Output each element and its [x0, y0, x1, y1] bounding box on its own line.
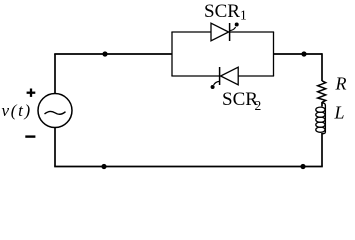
- svg-text:SCR: SCR: [204, 1, 240, 22]
- SCR SCR2 (thyristor, pointing left): [211, 67, 239, 89]
- SCR SCR1 (thyristor, pointing right): [211, 23, 239, 42]
- wire: bottom branch right segment from SCR2 anode: [238, 75, 274, 77]
- svg-text:L: L: [334, 103, 345, 123]
- - polarity mark: [25, 135, 35, 137]
- svg-text:1: 1: [240, 8, 247, 23]
- node: bottom-left junction: [101, 164, 106, 169]
- node: top-left junction: [102, 51, 107, 56]
- wire: right vertical between resistor and inductor: [321, 102, 323, 107]
- resistor R: [318, 81, 326, 103]
- voltage source v(t): [38, 94, 72, 128]
- inductor L: [316, 103, 326, 134]
- node: bottom-right junction: [300, 164, 305, 169]
- svg-text:2: 2: [255, 98, 262, 113]
- wire: left vertical (source top lead): [54, 54, 56, 94]
- wire: bottom rail: [54, 166, 323, 168]
- wire: right vertical below inductor: [321, 133, 323, 167]
- node: top-right junction: [301, 51, 306, 56]
- wire: SCR parallel box right edge: [273, 32, 275, 76]
- svg-text:SCR: SCR: [222, 89, 258, 110]
- wire: bottom branch left segment to SCR2 cathode: [171, 75, 220, 77]
- wire: top rail from source to SCR box: [54, 53, 172, 55]
- wire: left vertical (source bottom lead): [54, 128, 56, 167]
- wire: top branch right segment from SCR1 cathode: [230, 31, 275, 33]
- svg-text:v(t): v(t): [2, 101, 32, 120]
- wire: SCR parallel box left edge: [171, 32, 173, 76]
- + polarity mark: [27, 89, 36, 97]
- svg-text:R: R: [335, 74, 347, 94]
- wire: right vertical above resistor: [321, 53, 323, 81]
- wire: top branch left segment to SCR1 anode: [171, 31, 211, 33]
- wire: top rail from SCR box to right corner: [274, 53, 323, 55]
